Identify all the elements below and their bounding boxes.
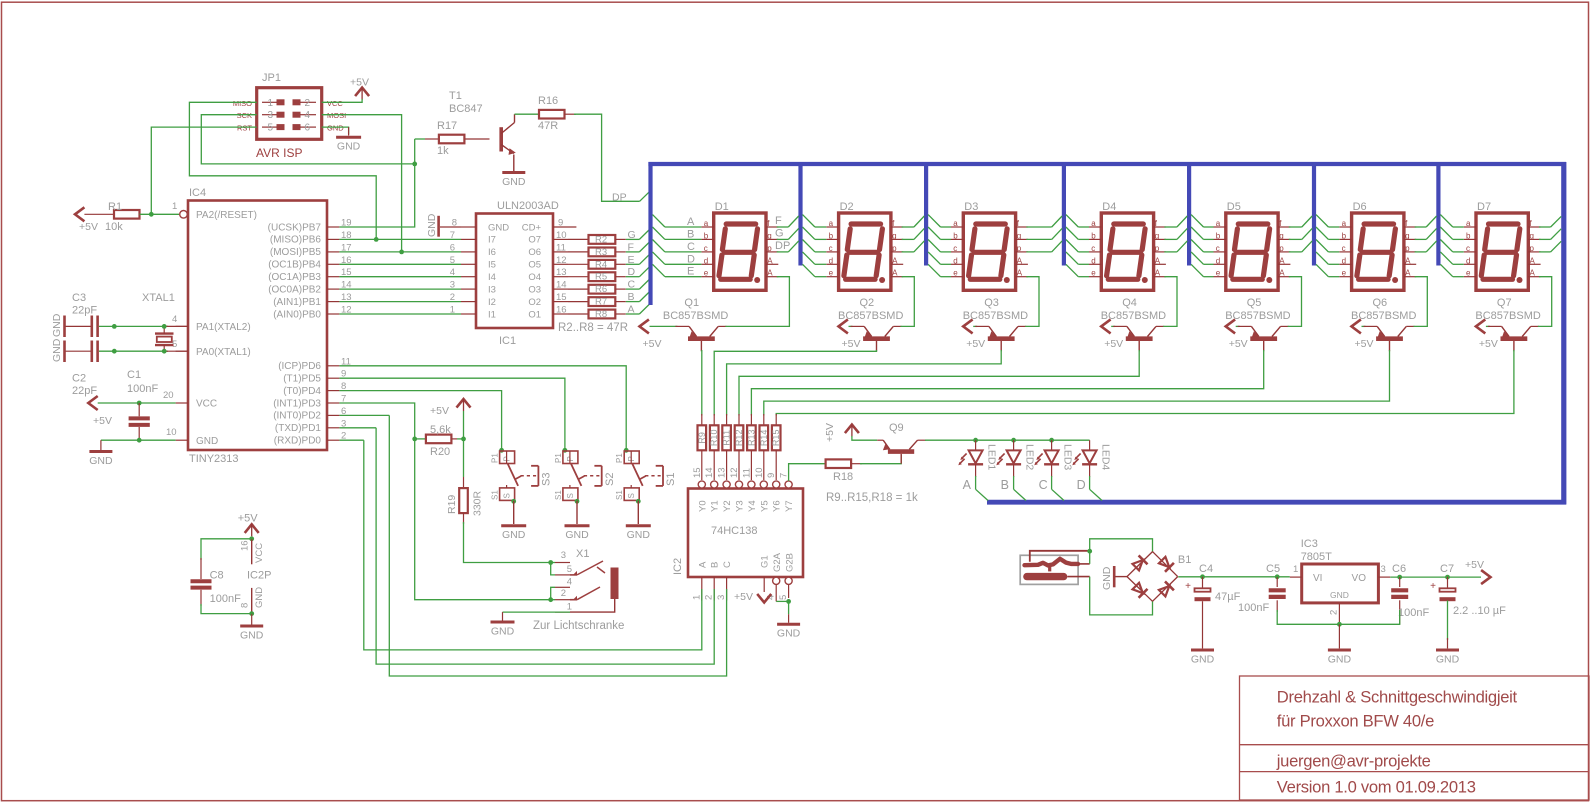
svg-text:IC4: IC4: [189, 187, 206, 199]
svg-text:D3: D3: [964, 201, 978, 213]
7-segment display D3: [951, 201, 1028, 290]
transistor Q3 BC857BSMD PNP: [963, 297, 1028, 351]
svg-text:S1: S1: [554, 490, 563, 500]
wire D6 pin g into bus: [1415, 228, 1437, 239]
svg-text:Q1: Q1: [684, 297, 699, 309]
svg-text:15: 15: [692, 467, 703, 478]
wire D6 pin f into bus: [1415, 216, 1437, 227]
svg-text:5: 5: [778, 595, 789, 600]
svg-text:5: 5: [268, 123, 274, 134]
wire net E into bus: [626, 254, 650, 266]
svg-text:IC3: IC3: [1301, 538, 1318, 550]
wire bus to D4 pin d: [1066, 252, 1089, 264]
svg-text:GND: GND: [1191, 654, 1215, 666]
switch S2: [554, 448, 616, 541]
wire R19 to X1 pin3: [464, 522, 554, 565]
wire XTAL2 net: [99, 324, 188, 329]
wire LED1 to bottom bus: [976, 476, 988, 501]
svg-text:Y0: Y0: [697, 500, 708, 512]
svg-text:15: 15: [556, 292, 567, 303]
svg-text:(INT1)PD3: (INT1)PD3: [273, 398, 321, 409]
svg-text:7805T: 7805T: [1301, 551, 1332, 563]
svg-text:22pF: 22pF: [72, 385, 97, 397]
svg-text:47µF: 47µF: [1215, 591, 1241, 603]
svg-text:g: g: [1405, 231, 1409, 240]
svg-text:14: 14: [556, 280, 567, 291]
svg-text:11: 11: [741, 468, 752, 478]
svg-text:B: B: [1001, 478, 1009, 492]
wire bus to D3 pin a: [928, 215, 951, 227]
svg-text:+5V: +5V: [79, 221, 98, 233]
svg-text:Q7: Q7: [1497, 297, 1512, 309]
svg-text:RST: RST: [237, 124, 252, 133]
wire D5 pin dp into bus: [1289, 241, 1312, 252]
svg-text:C2: C2: [72, 373, 86, 385]
svg-text:(INT0)PD2: (INT0)PD2: [273, 411, 321, 422]
svg-text:4: 4: [172, 314, 177, 325]
wire LED2 to bottom bus: [1014, 476, 1026, 501]
wire PB5 to ULN I6: [339, 250, 461, 255]
svg-text:+5V: +5V: [1479, 338, 1498, 350]
svg-text:R13: R13: [746, 430, 756, 447]
bus vertical segment 4: [1062, 162, 1066, 266]
svg-text:b: b: [953, 231, 958, 240]
transistor Q6 BC857BSMD PNP: [1351, 297, 1416, 351]
svg-text:+5V: +5V: [842, 338, 861, 350]
wire D7 pin dp into right bus: [1539, 241, 1561, 252]
svg-text:G: G: [775, 227, 784, 239]
wire X1 pin2 to pin4: [551, 587, 555, 599]
svg-text:D2: D2: [840, 201, 854, 213]
svg-text:g: g: [892, 231, 896, 240]
svg-text:GND: GND: [337, 141, 361, 153]
switch S3: [491, 448, 553, 541]
svg-text:T1: T1: [449, 90, 462, 102]
wire bus to D4 pin c: [1066, 240, 1089, 252]
wire D5 common anode to Q5 collector: [1288, 277, 1302, 327]
svg-text:CD+: CD+: [522, 222, 542, 233]
svg-text:a: a: [1091, 219, 1096, 228]
IC IC2 74HC138: [672, 467, 803, 601]
resistor R3 47R: [568, 247, 626, 258]
svg-text:R2: R2: [595, 234, 607, 245]
svg-text:BC857BSMD: BC857BSMD: [838, 310, 903, 322]
svg-text:E: E: [628, 254, 635, 266]
svg-text:Q2: Q2: [860, 297, 875, 309]
svg-text:XTAL1: XTAL1: [142, 292, 175, 304]
wire D2 common anode to Q2 collector: [901, 277, 915, 327]
svg-text:A: A: [767, 269, 773, 278]
capacitor C7 2.2-10uF: [1430, 563, 1506, 648]
svg-text:GND: GND: [89, 455, 113, 467]
svg-text:A: A: [1017, 269, 1023, 278]
ground at IC4 pin10: [89, 438, 175, 467]
wire X2 to bridge AC top: [1087, 539, 1152, 564]
svg-text:A: A: [963, 478, 972, 492]
svg-text:+5V: +5V: [1465, 559, 1484, 571]
svg-text:D5: D5: [1227, 201, 1241, 213]
svg-text:R9..R15,R18 = 1k: R9..R15,R18 = 1k: [826, 492, 918, 504]
resistor R20 5,6k: [415, 424, 466, 458]
svg-text:12: 12: [556, 255, 567, 266]
+5V supply at 74HC138 G1: [734, 591, 771, 603]
svg-text:I4: I4: [488, 272, 496, 283]
svg-text:p: p: [892, 244, 897, 253]
svg-text:c: c: [1342, 244, 1346, 253]
wire R1 to IC4 pin1 (/RESET): [140, 212, 180, 217]
wire net DP (R16 to bus): [574, 114, 652, 201]
wire PB1 to ULN I1: [339, 313, 461, 315]
bus vertical segment 3: [924, 162, 928, 266]
+5V supply left of R1: [75, 207, 98, 233]
svg-text:+5V: +5V: [350, 77, 369, 89]
svg-text:(AIN1)PB1: (AIN1)PB1: [273, 297, 321, 308]
svg-text:C4: C4: [1199, 563, 1213, 575]
svg-text:C7: C7: [1440, 563, 1454, 575]
transistor Q7 BC857BSMD PNP: [1475, 297, 1540, 351]
svg-text:S2: S2: [604, 473, 616, 486]
wire PB7 to SCK junction: [339, 165, 414, 227]
wire +5V to VCC pin 20: [98, 401, 176, 406]
svg-text:(MOSI)PB5: (MOSI)PB5: [270, 247, 322, 258]
capacitor C2 22pF: [66, 341, 98, 398]
wire regulator output to +5V: [1390, 575, 1481, 580]
svg-text:a: a: [1466, 219, 1471, 228]
svg-text:a: a: [829, 219, 834, 228]
svg-text:A: A: [697, 561, 708, 568]
wire bus to D7 pin b: [1440, 227, 1463, 239]
svg-text:G2B: G2B: [785, 553, 796, 572]
wire XTAL1 net: [99, 349, 188, 354]
svg-text:GND: GND: [1436, 654, 1460, 666]
svg-text:Drehzahl & Schnittgeschwindigj: Drehzahl & Schnittgeschwindigjeit: [1277, 688, 1518, 707]
wire D5 pin f into bus: [1289, 216, 1312, 227]
wire Q6 base to R14: [764, 350, 1390, 416]
svg-text:PA1(XTAL2): PA1(XTAL2): [196, 322, 251, 333]
svg-text:A: A: [767, 256, 773, 265]
svg-text:A: A: [1405, 269, 1411, 278]
wire X2 to bridge AC bottom: [1090, 577, 1153, 615]
svg-text:ULN2003AD: ULN2003AD: [497, 200, 559, 212]
svg-text:Y7: Y7: [784, 500, 795, 512]
svg-text:S: S: [503, 493, 512, 498]
wire net SCK (JP1 pin3 to PB7/R17): [201, 115, 414, 164]
wire PD5 to switch S2: [339, 378, 565, 450]
svg-text:1: 1: [567, 602, 572, 613]
bus vertical segment 1: [648, 162, 652, 305]
svg-text:GND: GND: [627, 529, 651, 541]
svg-text:R7: R7: [595, 297, 607, 308]
svg-text:a: a: [1216, 219, 1221, 228]
label R9..R15,R18 = 1k: [826, 492, 918, 504]
svg-text:14: 14: [704, 467, 715, 478]
svg-text:A: A: [1155, 256, 1161, 265]
svg-text:R16: R16: [538, 95, 558, 107]
svg-text:C5: C5: [1266, 563, 1280, 575]
svg-text:3: 3: [268, 110, 274, 121]
resistor R10 1k: [709, 414, 719, 480]
svg-text:4: 4: [567, 577, 572, 588]
svg-text:GND: GND: [1101, 566, 1113, 590]
svg-text:R19: R19: [446, 495, 458, 514]
ground below IC2P: [240, 614, 264, 642]
svg-text:P1: P1: [615, 453, 624, 463]
svg-text:MOSI: MOSI: [327, 111, 346, 120]
svg-text:1k: 1k: [437, 145, 449, 157]
svg-text:GND: GND: [426, 213, 438, 237]
svg-text:p: p: [1405, 244, 1410, 253]
svg-text:c: c: [829, 244, 833, 253]
wire PB2 to ULN I2: [339, 301, 461, 303]
7-segment display D7: [1464, 201, 1541, 290]
wire bus to D5 pin a: [1191, 215, 1213, 227]
svg-text:A: A: [1017, 256, 1023, 265]
svg-text:Q3: Q3: [984, 297, 999, 309]
svg-text:6: 6: [305, 123, 311, 134]
svg-text:S: S: [566, 493, 575, 498]
wire bus to D3 pin b: [928, 227, 951, 239]
svg-text:BC847: BC847: [449, 103, 483, 115]
svg-text:GND: GND: [240, 630, 264, 642]
resistor R14 1k: [759, 414, 769, 480]
svg-text:(UCSK)PB7: (UCSK)PB7: [268, 222, 322, 233]
svg-text:O3: O3: [528, 284, 541, 295]
wire D3 pin f into bus: [1026, 216, 1062, 227]
svg-text:4: 4: [305, 110, 311, 121]
svg-text:+5V: +5V: [734, 591, 753, 603]
svg-text:2: 2: [1329, 610, 1340, 615]
svg-text:+5V: +5V: [643, 338, 662, 350]
svg-text:12: 12: [729, 467, 740, 478]
wire bridge plus to regulator: [1178, 574, 1290, 579]
svg-text:d: d: [1466, 256, 1470, 265]
wire D1 common anode to Q1 collector: [725, 277, 789, 327]
wire D4 common anode to Q4 collector: [1163, 277, 1177, 327]
svg-text:F: F: [775, 215, 782, 227]
svg-text:C: C: [628, 279, 636, 291]
svg-text:IC1: IC1: [499, 335, 516, 347]
svg-text:juergen@avr-projekte: juergen@avr-projekte: [1276, 752, 1431, 771]
wire net D into bus: [626, 266, 650, 278]
svg-text:R2..R8 = 47R: R2..R8 = 47R: [558, 322, 628, 334]
svg-text:10: 10: [166, 427, 177, 438]
svg-text:1: 1: [268, 98, 274, 109]
svg-text:R1: R1: [108, 201, 122, 213]
svg-text:(OC1A)PB3: (OC1A)PB3: [268, 272, 321, 283]
svg-text:GND: GND: [51, 338, 63, 362]
svg-text:S1: S1: [491, 490, 500, 500]
svg-text:D: D: [687, 253, 695, 265]
svg-text:Y5: Y5: [759, 500, 770, 512]
wire bus to D6 pin d: [1316, 252, 1339, 264]
resistor R9 1k: [697, 414, 707, 480]
svg-text:+5V: +5V: [430, 405, 449, 417]
svg-text:R12: R12: [734, 430, 744, 447]
svg-text:BC857BSMD: BC857BSMD: [963, 310, 1028, 322]
svg-text:Y4: Y4: [747, 500, 758, 512]
wire JP1 pin2 to +5V: [322, 99, 362, 102]
connector JP1 AVR ISP: [233, 72, 346, 160]
svg-text:16: 16: [240, 540, 251, 551]
wire IC4 PD1 stub: [339, 427, 376, 429]
svg-text:C6: C6: [1392, 563, 1406, 575]
svg-text:R10: R10: [709, 430, 719, 447]
wire ground rail C5-C6: [1277, 610, 1400, 627]
resistor R15 1k: [771, 414, 781, 480]
svg-text:e: e: [1091, 269, 1096, 278]
wire bus to D1 pin a: [653, 215, 702, 228]
svg-text:d: d: [1216, 256, 1220, 265]
svg-text:c: c: [1216, 244, 1220, 253]
inversion bubble IC4 pin1: [172, 201, 187, 218]
svg-text:I7: I7: [488, 235, 496, 246]
svg-text:für Proxxon BFW 40/e: für Proxxon BFW 40/e: [1277, 712, 1434, 731]
wire net MOSI (JP1 pin4 to PB5): [322, 115, 402, 252]
svg-text:MISO: MISO: [233, 99, 252, 108]
svg-text:E: E: [687, 266, 694, 278]
svg-text:A: A: [1155, 269, 1161, 278]
svg-text:d: d: [704, 256, 708, 265]
svg-text:A: A: [1530, 256, 1536, 265]
svg-text:S: S: [627, 493, 636, 498]
svg-text:VCC: VCC: [196, 399, 217, 410]
svg-text:IC2: IC2: [672, 558, 684, 575]
LED LED1: [958, 440, 997, 492]
wire net MISO (JP1 pin1 to PB6): [189, 102, 376, 239]
svg-text:5: 5: [567, 564, 572, 575]
transistor Q5 BC857BSMD PNP: [1225, 297, 1290, 351]
svg-text:g: g: [767, 231, 771, 240]
svg-text:VI: VI: [1313, 573, 1322, 584]
svg-text:BC857BSMD: BC857BSMD: [1101, 310, 1166, 322]
svg-text:VO: VO: [1352, 573, 1367, 584]
svg-text:LED1: LED1: [986, 444, 998, 470]
svg-text:+5V: +5V: [1229, 338, 1248, 350]
svg-text:p: p: [1279, 244, 1284, 253]
bus right vertical: [1561, 162, 1566, 505]
wire bus to D1 pin c: [653, 240, 702, 253]
wire 74HC138 B select to PD1: [376, 428, 714, 664]
svg-text:3: 3: [561, 550, 566, 561]
wire D4 pin g into bus: [1164, 228, 1187, 239]
svg-text:3: 3: [1381, 564, 1386, 575]
svg-text:I6: I6: [488, 247, 496, 258]
svg-text:P1: P1: [554, 453, 563, 463]
wire bus to D5 pin c: [1191, 240, 1213, 252]
transistor Q1 BC857BSMD PNP: [640, 297, 729, 351]
svg-text:R8: R8: [595, 309, 607, 320]
IC IC4 TINY2313: [163, 187, 352, 465]
svg-text:Y1: Y1: [710, 500, 721, 512]
svg-text:O4: O4: [528, 272, 541, 283]
svg-text:b: b: [704, 231, 709, 240]
svg-text:1: 1: [691, 595, 702, 600]
capacitor C5 100nF: [1238, 563, 1286, 614]
wire D4 pin f into bus: [1164, 216, 1187, 227]
svg-text:TINY2313: TINY2313: [189, 453, 239, 465]
svg-text:a: a: [953, 219, 958, 228]
wire bus to D1 pin e: [653, 264, 702, 277]
svg-text:X1: X1: [576, 548, 589, 560]
+5V supply above R20: [430, 399, 471, 439]
svg-text:e: e: [829, 269, 834, 278]
svg-text:9: 9: [558, 218, 563, 229]
wire bus to D6 pin e: [1316, 264, 1339, 276]
wire Q1 base to R9: [701, 350, 703, 416]
svg-text:100nF: 100nF: [1398, 607, 1429, 619]
wire G2A to G2B: [776, 599, 791, 604]
wire PD4 to switch S3: [339, 391, 501, 451]
wire bus to D2 pin c: [803, 240, 827, 252]
wire Q7 base to R15: [776, 350, 1514, 416]
svg-text:R3: R3: [595, 247, 607, 258]
svg-text:3: 3: [716, 595, 727, 600]
svg-text:Y3: Y3: [735, 500, 746, 512]
svg-text:20: 20: [163, 390, 174, 401]
svg-text:100nF: 100nF: [127, 383, 158, 395]
svg-text:A: A: [1405, 256, 1411, 265]
resistor R16 47R: [538, 95, 576, 132]
wire net C into bus: [626, 279, 650, 291]
ground at JP1 pin6: [322, 127, 361, 153]
wire D7 pin g into right bus: [1539, 229, 1561, 240]
svg-text:d: d: [1342, 256, 1346, 265]
svg-text:(MISO)PB6: (MISO)PB6: [270, 235, 322, 246]
svg-text:B: B: [687, 228, 694, 240]
svg-text:9: 9: [766, 473, 777, 478]
svg-text:p: p: [767, 244, 772, 253]
svg-text:GND: GND: [1330, 590, 1349, 600]
svg-text:I1: I1: [488, 309, 496, 320]
+5V supply at Q9: [824, 423, 859, 442]
svg-text:+5V: +5V: [824, 423, 836, 442]
svg-text:LED3: LED3: [1062, 444, 1074, 470]
bus vertical segment 2: [798, 162, 802, 266]
svg-text:b: b: [1216, 231, 1221, 240]
ground at ULN pin8: [426, 213, 461, 237]
svg-text:e: e: [704, 269, 709, 278]
wire bus to D4 pin e: [1066, 264, 1089, 276]
svg-text:p: p: [1017, 244, 1022, 253]
svg-text:2: 2: [704, 595, 715, 600]
bus vertical segment 7: [1436, 162, 1440, 266]
svg-text:O1: O1: [528, 309, 541, 320]
connector X1 jack: [533, 548, 624, 632]
svg-text:11: 11: [556, 242, 566, 253]
wire bus to D5 pin d: [1191, 252, 1213, 264]
svg-text:(OC0A)PB2: (OC0A)PB2: [268, 284, 321, 295]
svg-text:R11: R11: [722, 430, 732, 446]
wire bus to D5 pin e: [1191, 264, 1213, 276]
wire X1 pin2 to PD3 net: [415, 440, 555, 602]
svg-text:(TXD)PD1: (TXD)PD1: [275, 423, 322, 434]
svg-text:b: b: [1342, 231, 1347, 240]
+5V supply at JP1 pin2: [350, 77, 369, 100]
svg-text:GND: GND: [488, 222, 509, 233]
ground at X1 pin1: [491, 612, 571, 637]
wire D3 pin g into bus: [1026, 228, 1062, 239]
svg-text:c: c: [1466, 244, 1470, 253]
wire D4 pin dp into bus: [1164, 241, 1187, 252]
svg-text:A: A: [892, 269, 898, 278]
svg-text:A: A: [1279, 269, 1285, 278]
capacitor C4 47uF: [1185, 563, 1240, 648]
svg-text:c: c: [704, 244, 708, 253]
svg-text:VCC: VCC: [254, 543, 265, 563]
wire bus to D7 pin e: [1440, 264, 1463, 276]
wire 74HC138 Y7 to R18: [789, 464, 826, 481]
wire bus to D7 pin d: [1440, 252, 1463, 264]
